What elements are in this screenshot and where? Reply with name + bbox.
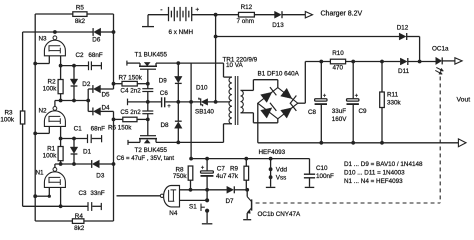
svg-text:D4: D4 xyxy=(102,105,111,112)
svg-text:8k2: 8k2 xyxy=(74,225,85,232)
svg-text:R11: R11 xyxy=(387,91,399,98)
svg-text:330k: 330k xyxy=(387,99,402,106)
svg-text:R9: R9 xyxy=(230,165,239,172)
svg-text:750k: 750k xyxy=(173,173,188,180)
svg-text:C7: C7 xyxy=(217,165,226,172)
svg-text:10 VA: 10 VA xyxy=(226,62,243,69)
svg-text:N4: N4 xyxy=(169,210,178,217)
svg-text:D10 ... D11 = 1N4003: D10 ... D11 = 1N4003 xyxy=(344,170,405,177)
svg-text:C3: C3 xyxy=(78,190,87,197)
svg-text:R2: R2 xyxy=(48,78,57,85)
svg-text:47k: 47k xyxy=(228,173,239,180)
svg-text:+: + xyxy=(201,166,205,172)
svg-text:D13: D13 xyxy=(272,22,284,29)
svg-text:8k2: 8k2 xyxy=(75,18,86,25)
svg-text:D6: D6 xyxy=(92,37,101,44)
svg-text:N1 ... N4 = HEF4093: N1 ... N4 = HEF4093 xyxy=(344,178,403,185)
svg-text:C1: C1 xyxy=(74,126,83,133)
svg-text:68nF: 68nF xyxy=(88,52,103,59)
svg-text:R4: R4 xyxy=(75,213,84,220)
svg-text:D3: D3 xyxy=(96,173,105,180)
svg-text:+: + xyxy=(355,94,359,100)
svg-text:100k: 100k xyxy=(0,117,15,124)
svg-text:D1: D1 xyxy=(83,148,92,155)
svg-text:D5: D5 xyxy=(102,91,111,98)
svg-text:OC1a: OC1a xyxy=(432,46,449,53)
svg-text:D12: D12 xyxy=(397,24,409,31)
svg-text:S1: S1 xyxy=(189,203,197,210)
svg-text:4u7: 4u7 xyxy=(216,173,227,180)
svg-text:D11: D11 xyxy=(398,68,410,75)
svg-text:C9: C9 xyxy=(359,108,368,115)
svg-text:+: + xyxy=(195,7,199,14)
svg-text:N1: N1 xyxy=(35,170,44,177)
svg-text:100k: 100k xyxy=(43,153,58,160)
svg-text:OC1b CNY47A: OC1b CNY47A xyxy=(258,211,301,218)
svg-text:100nF: 100nF xyxy=(316,173,334,180)
svg-text:D2: D2 xyxy=(82,81,91,88)
svg-text:C8: C8 xyxy=(308,109,317,116)
svg-text:R12: R12 xyxy=(241,4,253,11)
svg-text:100k: 100k xyxy=(43,85,58,92)
svg-text:N3: N3 xyxy=(38,36,47,43)
svg-text:HEF4093: HEF4093 xyxy=(259,149,286,156)
svg-text:160V: 160V xyxy=(332,116,348,123)
svg-text:D10: D10 xyxy=(196,84,208,91)
svg-text:D9: D9 xyxy=(159,78,168,85)
svg-text:+: + xyxy=(323,94,327,100)
svg-text:R3: R3 xyxy=(4,110,13,117)
svg-text:470: 470 xyxy=(332,64,343,71)
svg-text:D8: D8 xyxy=(160,122,169,129)
svg-text:Charger 8.2V: Charger 8.2V xyxy=(321,11,363,18)
svg-text:D7: D7 xyxy=(225,198,234,205)
svg-text:C6 = 47uF , 35V, tant: C6 = 47uF , 35V, tant xyxy=(117,155,175,162)
svg-text:Vout: Vout xyxy=(457,97,471,104)
svg-text:33nF: 33nF xyxy=(90,190,105,197)
svg-text:+: + xyxy=(167,104,171,110)
svg-text:R1: R1 xyxy=(47,146,56,153)
svg-text:C6: C6 xyxy=(160,90,169,97)
svg-text:6 x NMH: 6 x NMH xyxy=(169,29,194,36)
svg-text:R7 150k: R7 150k xyxy=(119,74,143,81)
svg-text:C2: C2 xyxy=(75,52,84,59)
svg-text:7 ohm: 7 ohm xyxy=(237,18,255,25)
svg-text:68nF: 68nF xyxy=(91,126,106,133)
svg-text:C5 2n2: C5 2n2 xyxy=(120,109,141,116)
svg-text:T2 BUK455: T2 BUK455 xyxy=(135,147,168,154)
svg-text:SB140: SB140 xyxy=(195,108,214,115)
svg-text:Vss: Vss xyxy=(276,175,287,182)
svg-text:Vdd: Vdd xyxy=(276,167,288,174)
svg-text:C4 2n2: C4 2n2 xyxy=(120,88,141,95)
svg-text:R10: R10 xyxy=(332,50,344,57)
svg-text:C10: C10 xyxy=(316,165,328,172)
svg-text:B1 DF10 640A: B1 DF10 640A xyxy=(258,70,300,77)
svg-text:D1 ... D9 = BAV10 / 1N4148: D1 ... D9 = BAV10 / 1N4148 xyxy=(344,161,423,168)
svg-text:R6 150k: R6 150k xyxy=(108,124,132,131)
svg-text:R5: R5 xyxy=(76,4,85,11)
svg-text:33uF: 33uF xyxy=(332,108,347,115)
svg-text:N2: N2 xyxy=(38,108,47,115)
svg-text:T1 BUK455: T1 BUK455 xyxy=(135,52,168,59)
